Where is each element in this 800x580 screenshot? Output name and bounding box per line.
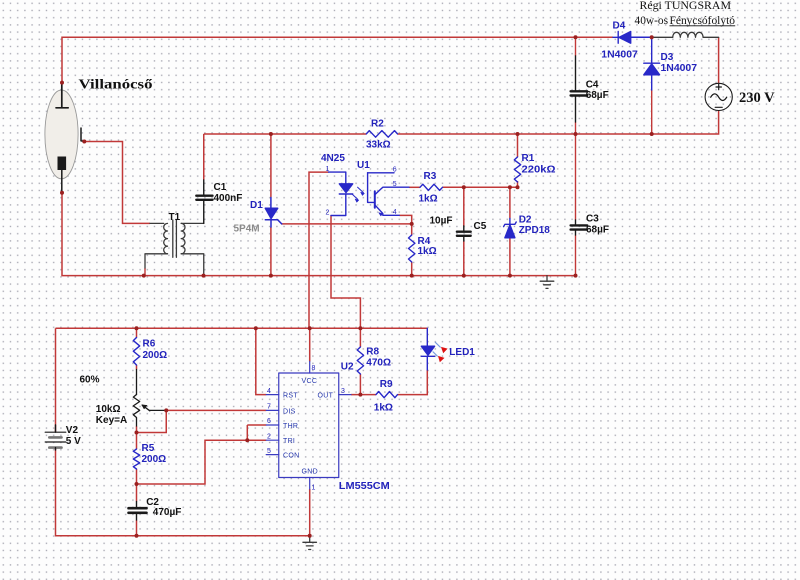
svg-text:U1: U1 [357, 160, 370, 171]
svg-text:C3: C3 [586, 214, 599, 225]
wire wiper to DIS pin [166, 409, 266, 411]
svg-text:230 V: 230 V [739, 90, 775, 106]
svg-text:1: 1 [312, 484, 316, 491]
diode D4 1N4007 [613, 32, 631, 44]
svg-text:R8: R8 [366, 346, 379, 357]
opto pin numbers [326, 166, 397, 217]
svg-text:1N4007: 1N4007 [601, 50, 638, 61]
wire R4 node up to opto pin4 [399, 215, 411, 224]
wire TRI junction to R5 bottom [137, 440, 248, 484]
wire pot bottom to junction [136, 426, 138, 433]
svg-text:R9: R9 [380, 379, 393, 390]
svg-text:R1: R1 [522, 153, 535, 164]
junction dots top [60, 35, 654, 277]
svg-text:33kΩ: 33kΩ [366, 140, 391, 151]
svg-text:ZPD18: ZPD18 [519, 225, 551, 236]
zener diode D2 ZPD18 [504, 219, 517, 238]
wire choke to 230V source corner [718, 37, 720, 83]
svg-text:8: 8 [312, 365, 316, 372]
svg-text:470Ω: 470Ω [366, 357, 391, 368]
capacitor C1 [196, 180, 212, 223]
WIRES-TOP [62, 37, 719, 328]
wire R6 top lead [136, 328, 138, 337]
wire R9 to LED1 [398, 370, 428, 395]
IC U2 LM555CM box [266, 362, 351, 490]
svg-text:R6: R6 [143, 338, 156, 349]
svg-text:THR: THR [283, 423, 298, 430]
wire opto pin5 to R3 [409, 186, 420, 188]
svg-text:V2: V2 [66, 425, 79, 436]
wire battery bottom to ground rail [56, 448, 310, 536]
svg-text:220kΩ: 220kΩ [522, 165, 556, 176]
svg-text:7: 7 [267, 404, 271, 411]
lamp Villanócső (flash tube) [45, 83, 84, 193]
svg-text:LED1: LED1 [449, 347, 475, 358]
svg-text:6: 6 [393, 167, 397, 174]
wire mid rail left of R2 to C1 column [204, 133, 367, 135]
svg-text:Key=A: Key=A [96, 415, 127, 426]
wire D1 anode from mid rail [270, 134, 272, 198]
wire THR-TRI junction [247, 425, 266, 440]
svg-text:40w-os: 40w-os [635, 15, 669, 27]
wire lamp right electrode to T1 primary [84, 142, 150, 224]
resistor R4 [409, 235, 415, 262]
svg-text:60%: 60% [80, 374, 100, 385]
wire lamp bottom to ground rail [62, 193, 576, 276]
ground (top section) [540, 276, 554, 289]
wire C2 junction down [136, 484, 138, 502]
LED1 [421, 328, 447, 370]
svg-text:4N25: 4N25 [321, 153, 345, 164]
svg-text:VCC: VCC [302, 378, 318, 385]
junction dots bottom [135, 326, 363, 538]
svg-text:D2: D2 [519, 215, 532, 226]
wire C4 column [575, 37, 577, 134]
capacitor C2 [129, 502, 147, 521]
resistor R5 [133, 449, 139, 469]
battery V2 5V [45, 425, 66, 450]
resistor R8 [357, 347, 363, 374]
svg-text:10kΩ: 10kΩ [96, 404, 121, 415]
resistor R6 [133, 338, 139, 365]
svg-text:TRI: TRI [283, 438, 295, 445]
wire R1 column [517, 134, 519, 187]
resistor R9 [376, 392, 398, 398]
svg-text:D3: D3 [661, 52, 674, 63]
wire D1 cathode to rail [270, 227, 272, 276]
wire C5 column [463, 187, 465, 275]
wire pin8 VCC [309, 328, 311, 361]
svg-text:C4: C4 [586, 79, 599, 90]
svg-text:5 V: 5 V [66, 436, 81, 447]
svg-text:1kΩ: 1kΩ [418, 246, 437, 257]
555 pin names [283, 378, 334, 476]
ground (bottom section) [303, 536, 317, 550]
wire D1 gate to R4 node [282, 223, 412, 225]
wire R3 to R1 bottom node [443, 186, 518, 188]
capacitor C4 [571, 56, 588, 122]
svg-text:68µF: 68µF [586, 225, 609, 236]
svg-text:C5: C5 [474, 221, 487, 232]
svg-text:1kΩ: 1kΩ [374, 402, 393, 413]
wire VCC rail to RST pin [256, 328, 266, 394]
resistor R1 [514, 157, 520, 182]
wire D4 junction to choke [631, 36, 652, 38]
wire C1 column upper [203, 134, 205, 180]
wire wiper return to pot bottom [137, 410, 167, 432]
wire VCC rail bottom section [56, 327, 428, 329]
svg-text:400nF: 400nF [214, 193, 243, 204]
svg-text:6: 6 [267, 418, 271, 425]
transformer T1 [145, 220, 204, 276]
wire C2 bottom to rail [136, 520, 138, 536]
svg-text:2: 2 [267, 433, 271, 440]
COMPONENTS-BOTTOM [45, 326, 447, 549]
diode D3 1N4007 [644, 37, 660, 90]
svg-text:D1: D1 [250, 200, 263, 211]
wire R8 column [359, 328, 361, 394]
svg-text:5P4M: 5P4M [234, 224, 260, 235]
inductor choke (ballast) [652, 32, 719, 37]
capacitor C3 [571, 220, 588, 235]
wire pot junction to R5 [136, 433, 138, 450]
wire R5 bottom to C2 junction [136, 469, 138, 484]
svg-text:5: 5 [267, 448, 271, 455]
svg-text:1: 1 [326, 166, 330, 173]
AC source 230V [705, 83, 732, 110]
svg-text:1kΩ: 1kΩ [419, 193, 438, 204]
svg-text:4: 4 [267, 388, 271, 395]
svg-text:LM555CM: LM555CM [339, 481, 390, 492]
thyristor D1 5P4M [265, 198, 281, 228]
wire opto pin1 to VCC rail [309, 172, 329, 328]
WIRES-BOTTOM [56, 328, 428, 536]
wire OUT to R9 [351, 394, 376, 396]
svg-text:D4: D4 [613, 21, 626, 32]
wire R6 bottom to potentiometer [136, 365, 138, 370]
wire top rail from lamp to D4 [62, 37, 613, 82]
svg-text:200Ω: 200Ω [143, 350, 168, 361]
svg-text:1N4007: 1N4007 [661, 63, 698, 74]
svg-text:GND: GND [302, 469, 318, 476]
wire R4 top lead [411, 224, 413, 235]
optocoupler U1 4N25 [329, 172, 409, 216]
wire 230V source bottom to mid rail [398, 110, 719, 134]
wire D3 column lower lead [651, 90, 653, 134]
wire T1 left bottom to rail [144, 268, 146, 276]
resistor R2 [366, 131, 397, 138]
capacitor C5 [457, 226, 471, 241]
wire battery column top [55, 328, 57, 432]
svg-text:R2: R2 [371, 118, 384, 129]
svg-text:T1: T1 [169, 212, 181, 223]
svg-text:4: 4 [393, 209, 397, 216]
svg-text:R3: R3 [424, 171, 437, 182]
resistor R3 [420, 184, 443, 190]
svg-text:DIS: DIS [283, 408, 296, 415]
COMPONENTS-TOP [45, 32, 732, 289]
wire pin1 GND to rail [309, 489, 311, 536]
svg-text:C1: C1 [214, 182, 227, 193]
wire D2 column [509, 187, 511, 275]
wire C3 column [575, 134, 577, 276]
svg-text:RST: RST [283, 393, 298, 400]
svg-text:3: 3 [341, 388, 345, 395]
svg-text:Villanócső: Villanócső [79, 78, 153, 93]
potentiometer 10kΩ Key=A [133, 370, 166, 427]
wire opto pin2 to R8 column [331, 216, 360, 329]
svg-text:OUT: OUT [318, 393, 334, 400]
svg-text:10µF: 10µF [430, 216, 453, 227]
svg-text:2: 2 [326, 209, 330, 216]
svg-text:Régi TUNGSRAM: Régi TUNGSRAM [640, 0, 732, 12]
wire R4 bottom to rail [411, 262, 413, 276]
svg-text:470µF: 470µF [153, 507, 182, 518]
svg-text:200Ω: 200Ω [142, 454, 167, 465]
svg-text:5: 5 [393, 181, 397, 188]
svg-text:CON: CON [283, 453, 299, 460]
svg-text:68µF: 68µF [586, 90, 609, 101]
555 pin numbers [267, 365, 345, 492]
svg-text:R5: R5 [142, 443, 155, 454]
svg-text:U2: U2 [341, 362, 354, 373]
